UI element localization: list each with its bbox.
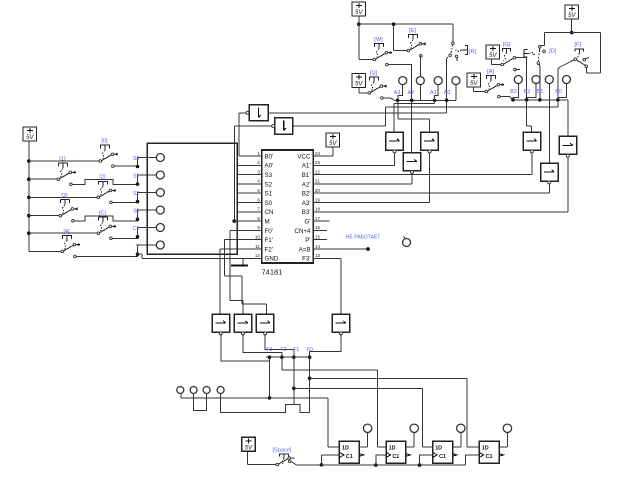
probe A0 lead: [455, 85, 457, 101]
buffer U7 output bubble: [530, 150, 533, 153]
FF3 output arrow: [453, 454, 457, 457]
svg-text:B1': B1': [302, 172, 311, 179]
wire to switch F: [600, 33, 602, 73]
switch [1]: [57, 157, 76, 186]
svg-text:F2: F2: [281, 347, 287, 353]
node F1 rail: [292, 387, 296, 391]
node row 3 junction: [136, 200, 140, 204]
buffer U6 body: [403, 153, 421, 171]
FF4 output arrow: [499, 454, 503, 457]
wire R in: [452, 24, 454, 41]
junction on V1 column row 3: [27, 196, 31, 200]
connector block (subcircuit box): [147, 143, 237, 254]
buffer U10 body: [212, 314, 230, 332]
wire bus to U8: [567, 100, 569, 137]
wire DFF3 clock: [420, 455, 433, 465]
wire F2 pin 11 down: [220, 248, 253, 250]
junction on V1 column row 4: [27, 214, 31, 218]
probe indicator A2: [416, 77, 424, 85]
wire U8 to pin 18: [567, 158, 569, 212]
svg-text:A1': A1': [302, 163, 311, 170]
svg-text:V: V: [136, 243, 140, 249]
svg-text:[F]: [F]: [575, 42, 582, 48]
pin 23 A1': [313, 164, 321, 166]
probe indicator Q3: [457, 424, 465, 432]
svg-text:B2: B2: [524, 89, 531, 95]
switch [R] vertical: [449, 42, 477, 61]
svg-text:[Space]: [Space]: [273, 448, 292, 454]
wire bus to U5 crossover: [397, 100, 399, 119]
wire pin 13 F3 to U13: [322, 257, 342, 259]
wire pin 8 M: [232, 220, 254, 222]
wire GND pin 12: [142, 257, 254, 259]
pin 21 A2': [313, 183, 321, 185]
bus B: [513, 99, 568, 101]
FF2 output arrow: [406, 454, 410, 457]
inverter U3 (NOT) body: [275, 118, 293, 134]
svg-text:F0: F0: [307, 347, 313, 353]
wire U9 to pin 20: [548, 184, 550, 193]
node A=B end: [366, 247, 370, 251]
svg-text:5V: 5V: [329, 141, 337, 147]
wire jog to terminal 3: [138, 193, 157, 202]
buffer U9 body: [541, 163, 559, 181]
wire U2 out to pin 1: [239, 112, 246, 114]
probe B1 lead: [548, 84, 550, 100]
svg-text:[R]: [R]: [469, 49, 477, 55]
wire W out to bus: [388, 65, 411, 101]
buffer U11 output bubble: [241, 332, 244, 335]
svg-text:18: 18: [315, 207, 320, 212]
power source V7 +5V: [326, 133, 340, 147]
wire D out to bus: [539, 64, 540, 100]
pin 12 GND: [254, 257, 262, 259]
wire jog to terminal 2: [138, 175, 157, 184]
node row 6 junction: [136, 252, 140, 256]
junction on V1 column row 5: [27, 231, 31, 235]
pin 16 CN+4: [313, 229, 321, 231]
svg-text:CN+4: CN+4: [295, 228, 312, 235]
svg-text:VCC: VCC: [297, 153, 311, 160]
bus A: [395, 99, 457, 101]
svg-text:5V: 5V: [355, 10, 363, 16]
switch [C]: [97, 211, 116, 240]
clock rail: [322, 464, 466, 466]
pin 20 B2': [313, 192, 321, 194]
wire pins 2-7 to connector edge: [237, 164, 254, 166]
switch [Q]: [368, 70, 387, 99]
svg-text:F2': F2': [265, 246, 273, 253]
pin 5 S1: [254, 192, 262, 194]
svg-text:F0': F0': [265, 228, 273, 235]
wire U3 rail: [293, 125, 386, 127]
pin 17 G': [313, 220, 321, 222]
buffer U5 output bubble: [428, 150, 431, 153]
svg-text:B0: B0: [555, 89, 562, 95]
svg-text:S2: S2: [265, 181, 273, 188]
wire pin 14 A=B: [322, 248, 369, 250]
node bus B: [525, 98, 529, 102]
svg-text:A1: A1: [430, 90, 437, 96]
power source V5 +5V: [486, 45, 500, 59]
svg-text:C1: C1: [486, 454, 493, 460]
ground symbol: [242, 258, 244, 265]
FF1 D input stub: [333, 446, 340, 448]
terminal C1: [156, 224, 164, 232]
wire DFF1 clock: [321, 455, 323, 465]
power source V4 +5V: [565, 5, 579, 19]
svg-text:[A]: [A]: [487, 69, 494, 75]
svg-text:P': P': [305, 237, 310, 244]
svg-text:[2]: [2]: [99, 175, 106, 181]
probe indicator B0: [563, 76, 571, 84]
wire to switch D: [544, 33, 546, 46]
probe indicator Q1: [363, 424, 371, 432]
wire switch [3] output to connector: [74, 216, 137, 221]
svg-text:S2: S2: [133, 191, 139, 197]
probe indicator floating: [404, 236, 406, 239]
svg-text:S0: S0: [133, 208, 139, 214]
wire bus to U2 rail: [446, 100, 448, 113]
node bus A: [433, 99, 437, 103]
wire bus to U7: [526, 100, 528, 126]
wire switch [0] output to connector: [114, 165, 137, 167]
wire bus to U4 crossover: [434, 100, 436, 103]
wire B top rail: [545, 32, 601, 34]
probe B2 lead: [527, 84, 536, 100]
svg-text:S3: S3: [265, 172, 273, 179]
svg-text:M: M: [265, 219, 270, 226]
svg-text:B2': B2': [302, 191, 311, 198]
svg-text:A2: A2: [408, 90, 415, 96]
svg-text:22: 22: [315, 169, 320, 174]
wire F1 pin 10 down: [225, 239, 254, 241]
D flip-flop FF1 body: [339, 441, 359, 463]
wire U7 to pin 22: [531, 153, 533, 174]
svg-text:C1: C1: [346, 454, 353, 460]
probe indicator Q2: [410, 424, 418, 432]
pin 11 F2': [254, 248, 262, 250]
D flip-flop FF2 body: [386, 441, 406, 463]
svg-text:F1: F1: [294, 347, 300, 353]
node F bus 3: [292, 355, 296, 359]
svg-text:CN: CN: [265, 209, 274, 216]
wire pin 15 stub: [322, 239, 328, 241]
junction on V1 column row 2: [27, 177, 31, 181]
node bus A: [445, 99, 449, 103]
wire V7 to VCC pin 24: [332, 147, 334, 156]
svg-text:A0': A0': [265, 163, 274, 170]
wire top rail A: [359, 23, 453, 25]
wire U11 out: [243, 334, 282, 357]
wire F2 net down: [281, 357, 283, 370]
wire U13 out: [310, 334, 341, 357]
svg-text:F3': F3': [302, 256, 310, 263]
svg-text:1D: 1D: [435, 446, 442, 452]
wire R out to bus: [447, 57, 448, 100]
pin 14 A=B: [313, 248, 321, 250]
wire U3 out to pin 8 M: [234, 125, 271, 127]
wire V1 feed column: [28, 141, 30, 251]
node row 4 junction: [136, 217, 140, 221]
switch [Space]: [273, 448, 295, 466]
svg-text:S3: S3: [133, 156, 139, 162]
svg-text:C1: C1: [439, 454, 446, 460]
node bus B: [538, 98, 542, 102]
node clock 1: [320, 463, 324, 467]
svg-text:S1: S1: [265, 191, 273, 198]
svg-text:B1: B1: [537, 89, 544, 95]
power source V2 +5V: [352, 2, 366, 16]
buffer U6 output bubble: [411, 171, 414, 174]
node bus A: [410, 99, 414, 103]
wire pin 16 stub: [322, 229, 328, 231]
svg-text:15: 15: [315, 235, 320, 240]
buffer U8 output bubble: [566, 154, 569, 157]
probe A3 lead: [398, 85, 403, 101]
pin 19 A3': [313, 202, 321, 204]
pin 15 P': [313, 239, 321, 241]
wire G out to bus: [516, 58, 527, 100]
node row 2 junction: [136, 182, 140, 186]
FF2 D input stub: [379, 446, 386, 448]
svg-text:B3: B3: [510, 89, 517, 95]
svg-text:G': G': [305, 219, 311, 226]
svg-text:[D]: [D]: [549, 48, 557, 54]
svg-text:5V: 5V: [355, 82, 363, 88]
terminal S2: [156, 189, 164, 197]
svg-text:F3: F3: [267, 347, 273, 353]
wire jog to terminal 1: [138, 158, 157, 167]
node M junction: [233, 219, 237, 223]
wire E out to probe A2: [419, 56, 421, 77]
buffer U7 body: [523, 132, 541, 150]
svg-text:GND: GND: [265, 256, 279, 263]
wire V3 to switch Q: [358, 88, 360, 93]
pin 9 F0': [254, 229, 262, 231]
probe A2 lead: [419, 85, 421, 101]
wire U5 to pin 19: [429, 153, 431, 202]
wire jog to terminal 4: [138, 210, 157, 219]
buffer U12 body: [256, 314, 274, 332]
svg-text:[4]: [4]: [63, 229, 70, 235]
wire F in: [586, 68, 588, 73]
buffer U13 output bubble: [339, 332, 342, 335]
svg-text:[E]: [E]: [409, 28, 416, 34]
wire switch [C] output to connector: [112, 237, 137, 239]
node clock 2: [374, 463, 378, 467]
junction on V1 column row 1: [27, 159, 31, 163]
probe indicator A1: [434, 77, 442, 85]
wire switch [2] output to connector: [112, 201, 137, 204]
svg-text:F1': F1': [265, 237, 273, 244]
svg-text:S0: S0: [265, 200, 273, 207]
wire to switch W: [358, 24, 360, 59]
svg-text:[G]: [G]: [503, 42, 511, 48]
node clock 3: [418, 463, 422, 467]
switch [W]: [373, 37, 392, 66]
probe indicator output row: [177, 387, 184, 394]
pin 10 F1': [254, 239, 262, 241]
probe indicator A3: [399, 77, 407, 85]
pin 6 S0: [254, 202, 262, 204]
wire U4 to pin 23: [394, 153, 396, 165]
wire pin 17 stub: [322, 220, 330, 222]
rail to DFF3 data: [294, 387, 423, 389]
FF3 Q to probe: [453, 446, 461, 448]
FF3 D input stub: [426, 446, 433, 448]
svg-text:A3': A3': [302, 200, 311, 207]
svg-text:19: 19: [315, 197, 320, 202]
svg-text:24: 24: [315, 151, 320, 156]
svg-text:1D: 1D: [482, 446, 489, 452]
probe indicator B3: [514, 76, 522, 84]
svg-text:14: 14: [315, 244, 320, 249]
probe indicator B2: [532, 76, 540, 84]
D flip-flop FF4 body: [479, 441, 499, 463]
svg-text:74181: 74181: [262, 268, 283, 277]
buffer U9 output bubble: [548, 181, 551, 184]
switch [D] vertical: [524, 46, 557, 65]
svg-text:10: 10: [255, 235, 260, 240]
rail to DFF2 data: [282, 369, 377, 371]
FF2 Q to probe: [406, 446, 414, 448]
svg-text:[3]: [3]: [61, 193, 68, 199]
wire DFF2 clock: [376, 455, 386, 465]
wire V6 to switch A: [473, 87, 475, 92]
FF4 Q to probe: [499, 446, 507, 448]
FF1 output arrow: [359, 454, 363, 457]
wire row 3 to switch: [29, 196, 97, 198]
wire F0 pin 9 down: [230, 229, 254, 231]
switch [4]: [61, 229, 80, 258]
terminal V: [156, 241, 164, 249]
lead probe 4 rail: [221, 394, 310, 413]
svg-text:5V: 5V: [245, 446, 253, 452]
svg-text:A0: A0: [444, 90, 451, 96]
pin 24 VCC: [313, 155, 321, 157]
wire U10 out: [221, 334, 270, 361]
power source V6 +5V: [467, 73, 481, 87]
probe indicator Q4: [503, 424, 511, 432]
wire jog to terminal 5: [138, 228, 157, 237]
svg-text:[C]: [C]: [99, 211, 107, 217]
probe indicator A0: [452, 77, 460, 85]
svg-text:5V: 5V: [470, 81, 478, 87]
wire F bus: [266, 356, 312, 358]
svg-text:13: 13: [315, 253, 320, 258]
node F bus 2: [280, 355, 284, 359]
terminal S3: [156, 154, 164, 162]
wire switch [1] output to connector: [72, 180, 137, 185]
svg-text:B0': B0': [265, 153, 274, 160]
terminal S0: [156, 206, 164, 214]
svg-text:C1: C1: [392, 454, 399, 460]
wire bus to U9: [548, 100, 550, 163]
pin 3 S3: [254, 174, 262, 176]
wire row 5 to switch: [29, 232, 97, 234]
svg-text:A=B: A=B: [299, 246, 311, 253]
probe B3 lead: [513, 84, 518, 100]
pin 4 S2: [254, 183, 262, 185]
wire B0 net rail: [385, 106, 558, 108]
node rail A tap: [392, 22, 396, 26]
switch [G]: [501, 42, 520, 71]
svg-text:11: 11: [255, 244, 260, 249]
buffer U4 body: [386, 132, 404, 150]
svg-text:[0]: [0]: [101, 138, 108, 144]
svg-text:B3': B3': [302, 209, 311, 216]
switch [E]: [407, 28, 426, 57]
buffer U5 body: [421, 132, 439, 150]
node bus B: [511, 98, 515, 102]
buffer U12 output bubble: [264, 332, 267, 335]
power source V3 +5V: [352, 74, 366, 88]
inverter U2 (NOT) body: [249, 105, 268, 121]
wire V8 to switch Space: [247, 451, 249, 464]
power source V1 +5V: [23, 127, 37, 141]
pin 7 CN: [254, 211, 262, 213]
svg-text:[Q]: [Q]: [370, 70, 378, 76]
wire Space out: [291, 461, 322, 464]
node bus A: [396, 99, 400, 103]
wire V2 down: [358, 16, 360, 24]
link probes 2-3: [194, 394, 207, 411]
pin 13 F3': [313, 257, 321, 259]
inverter U3 output bubble: [272, 124, 275, 127]
buffer U8 body: [559, 136, 577, 154]
svg-text:A2': A2': [302, 181, 311, 188]
inverter U2 output bubble: [246, 111, 249, 114]
pin 18 B3': [313, 211, 321, 213]
wire U12 out: [265, 334, 294, 357]
node row 5 junction: [136, 235, 140, 239]
node bus B: [556, 98, 560, 102]
svg-text:[1]: [1]: [59, 157, 66, 163]
svg-text:16: 16: [315, 225, 320, 230]
wire bus to U6: [411, 100, 413, 152]
switch [A]: [485, 69, 504, 98]
node F0 rail: [308, 377, 312, 381]
wire switch [4] output to connector: [76, 254, 137, 256]
IC U1 74181 body: [262, 150, 314, 263]
D flip-flop FF3 body: [433, 441, 453, 463]
svg-text:17: 17: [315, 216, 320, 221]
wire to switch E: [393, 24, 395, 50]
rail to DFF4 data: [310, 377, 468, 379]
rail to DFF1 data: [181, 397, 328, 399]
wire row 6 to switch: [29, 250, 61, 252]
pin 8 M: [254, 220, 262, 222]
svg-text:23: 23: [315, 160, 320, 165]
switch [2]: [97, 175, 116, 204]
buffer U13 body: [332, 314, 350, 332]
pin 2 A0': [254, 164, 262, 166]
wire row 4 to switch: [29, 215, 59, 217]
switch [F]: [574, 42, 588, 68]
node row 1 junction: [136, 165, 140, 169]
pin 1 B0': [254, 155, 262, 157]
switch [3]: [59, 193, 78, 222]
svg-text:A3: A3: [394, 90, 401, 96]
wire DFF4 clock: [466, 455, 480, 465]
probe A1 lead: [434, 85, 438, 101]
FF4 D input stub: [472, 446, 479, 448]
wire V4 down: [571, 19, 573, 33]
svg-text:21: 21: [315, 179, 320, 184]
node F3 rail: [268, 396, 272, 400]
svg-text:[W]: [W]: [374, 37, 383, 43]
